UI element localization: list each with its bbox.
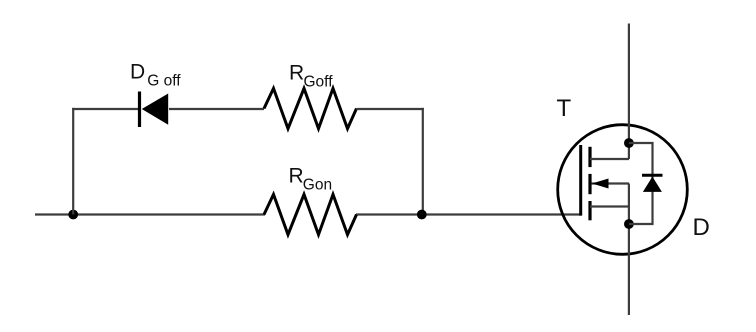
resistor R_Gon zigzag bbox=[264, 194, 357, 234]
diode D_Goff (cathode bar + left-pointing triangle) bbox=[140, 92, 169, 128]
body diode triangle (points up) bbox=[643, 177, 662, 192]
transistor T: source channel bar bbox=[588, 201, 591, 220]
svg-text:Goff: Goff bbox=[304, 73, 334, 90]
wire: source connection inside MOSFET bbox=[590, 205, 629, 207]
wire: left vertical branch bbox=[72, 108, 74, 215]
svg-text:G off: G off bbox=[147, 73, 181, 90]
transistor T: body channel bar bbox=[588, 174, 591, 194]
svg-text:D: D bbox=[130, 61, 145, 84]
transistor T: gate vertical line bbox=[579, 145, 582, 216]
node: drain junction dot bbox=[624, 138, 634, 148]
transistor T: body arrow (points left) bbox=[592, 179, 609, 189]
svg-text:D: D bbox=[693, 214, 710, 241]
node: left junction bbox=[68, 210, 78, 220]
body diode cathode bar bbox=[642, 174, 663, 177]
transistor T: drain channel bar bbox=[588, 147, 591, 167]
node: right junction bbox=[417, 210, 427, 220]
wire: source/body rail lower segment bbox=[628, 184, 630, 316]
svg-text:T: T bbox=[557, 95, 572, 122]
wire: top branch, corner to diode cathode bbox=[72, 108, 138, 110]
svg-text:R: R bbox=[289, 62, 304, 85]
wire: main horizontal segment from R_Gon to gate bbox=[356, 213, 581, 215]
svg-text:R: R bbox=[289, 165, 304, 188]
resistor R_Goff zigzag bbox=[264, 88, 357, 128]
wire: top branch, diode anode to R_Goff bbox=[169, 108, 264, 110]
svg-text:Gon: Gon bbox=[303, 176, 332, 193]
wire: top branch, R_Goff to right corner bbox=[357, 108, 424, 110]
wire: main horizontal input segment (left) bbox=[35, 213, 265, 215]
wire: drain rail upper segment bbox=[628, 24, 630, 160]
wire: right vertical branch bbox=[422, 108, 424, 215]
node: source junction dot bbox=[624, 219, 634, 229]
wire: drain connection inside MOSFET bbox=[590, 158, 629, 160]
transistor T: MOSFET circle outline bbox=[558, 125, 688, 255]
wire: body connection inside MOSFET bbox=[592, 182, 630, 184]
wire: body diode branch top bbox=[629, 143, 653, 224]
